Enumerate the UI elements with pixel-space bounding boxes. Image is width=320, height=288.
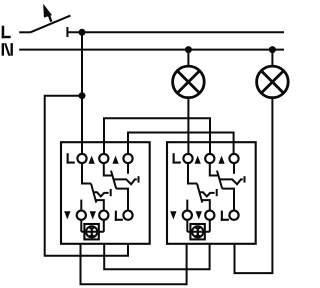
node dot N to lamp E1	[185, 46, 192, 53]
lamp E1	[173, 66, 205, 98]
screw slot serif bottom	[195, 235, 200, 237]
terminal C2	[99, 154, 108, 163]
rocker A blade	[197, 184, 202, 203]
rocker A connect to B2	[96, 200, 104, 211]
rocker A lead from C1	[82, 163, 91, 183]
rocker B open contact C3 stub	[233, 163, 235, 174]
terminal C1	[77, 154, 86, 163]
arrow label up 1	[89, 156, 95, 164]
rocker B lead from C2	[104, 163, 113, 175]
terminal L bottom	[123, 211, 132, 220]
box outline Q2	[167, 142, 256, 244]
wire main feed drop	[81, 32, 83, 154]
wire L stub	[19, 31, 30, 33]
node dot N to lamp E2	[269, 46, 276, 53]
wire lamp E2 top	[271, 50, 273, 67]
terminal B1	[183, 211, 192, 220]
node dot on L line	[79, 29, 86, 36]
rocker B blade	[111, 171, 116, 189]
label L top	[173, 153, 181, 163]
switch unit Q2 (right box)	[167, 142, 256, 244]
cursor pointer	[43, 4, 52, 22]
wire corresponding pair bottom 1 (B1-B1)	[81, 244, 187, 284]
rocker B actuator	[220, 179, 243, 184]
terminal C1	[183, 154, 192, 163]
rocker B actuator	[114, 179, 137, 184]
terminal B2	[99, 211, 108, 220]
screw clamp wire	[187, 220, 210, 232]
screw slot serif top	[89, 227, 94, 229]
label L bottom	[221, 211, 229, 221]
screw slot serif bottom	[89, 235, 94, 237]
wire corresponding pair bottom 2 (B2-B2)	[104, 244, 209, 269]
rocker A connect to B2	[202, 200, 210, 211]
wire branch to left and down to switch 1 L-bottom	[45, 96, 128, 256]
terminal C3	[123, 154, 132, 163]
arrow label up 2	[218, 156, 224, 164]
arrow label down 1	[64, 211, 70, 219]
rocker B actuator bar	[244, 176, 246, 182]
label L bottom	[115, 211, 123, 221]
rocker B lead from C2	[210, 163, 219, 175]
lamp E2	[257, 66, 289, 98]
rocker B connect to L-bottom	[116, 189, 128, 211]
wire lamp E1 top	[187, 50, 189, 67]
label L top	[67, 153, 75, 163]
node dot branch	[79, 92, 86, 99]
box outline Q1	[61, 142, 150, 244]
wire lamp E2 down and to switch 2 L-bottom	[235, 98, 273, 273]
screw head	[86, 226, 97, 237]
wire lamp E1 to switch 2 terminal L	[187, 98, 189, 154]
rocker B actuator bar	[138, 176, 140, 182]
rocker A open contact B1 stub	[186, 200, 188, 211]
arrow label up 2	[112, 156, 118, 164]
terminal B2	[205, 211, 214, 220]
switch S1 fixed contact	[66, 27, 68, 37]
label N (neutral)	[2, 43, 13, 56]
arrow label up 1	[195, 156, 201, 164]
terminal C3	[229, 154, 238, 163]
terminal B1	[77, 211, 86, 220]
wire N line	[19, 49, 284, 51]
arrow label down 2	[90, 211, 96, 219]
rocker A blade	[91, 184, 96, 203]
wire corresponding pair top 1 (C2-C2)	[104, 118, 210, 154]
screw clamp wire	[81, 220, 104, 232]
rocker A actuator bar	[216, 189, 218, 196]
rocker B connect to L-bottom	[222, 189, 234, 211]
label L (phase)	[2, 26, 11, 39]
arrow label down 2	[196, 211, 202, 219]
rocker B open contact C3 stub	[127, 163, 129, 174]
switch unit Q1 (left box)	[61, 142, 150, 244]
screw slot	[91, 228, 93, 237]
screw clamp box	[190, 224, 204, 239]
wire corresponding pair top 2 (C3-C3)	[128, 133, 234, 154]
rocker A actuator	[199, 192, 215, 196]
rocker A open contact B1 stub	[80, 200, 82, 211]
screw slot serif top	[195, 227, 200, 229]
rocker A actuator	[93, 192, 109, 196]
terminal C2	[205, 154, 214, 163]
screw head	[192, 226, 203, 237]
arrow label down 1	[170, 211, 176, 219]
wire L line	[67, 31, 284, 33]
switch S1 blade (open)	[30, 16, 70, 33]
terminal L bottom	[229, 211, 238, 220]
rocker A actuator bar	[110, 189, 112, 196]
rocker A lead from C1	[188, 163, 197, 183]
screw clamp box	[84, 224, 98, 239]
rocker B blade	[217, 171, 222, 189]
screw slot	[197, 228, 199, 237]
